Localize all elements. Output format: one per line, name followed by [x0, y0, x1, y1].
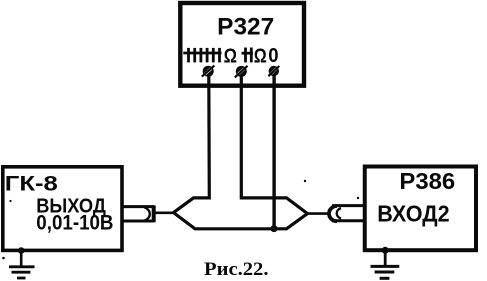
terminal 3 of P327: [268, 66, 279, 76]
wire W3: terminal3 straight down to bottom conductor: [272, 75, 275, 229]
svg-text:Ω: Ω: [224, 46, 237, 68]
dial markings group 1 (111111 ohm): [183, 48, 221, 63]
label P327: [217, 13, 274, 40]
ground (left, under GK-8): [9, 251, 35, 278]
connector XP1 (left coax plug at GK-8 output): [122, 205, 155, 222]
wire: left plug pin to left tip: [155, 212, 175, 215]
label P386: [399, 168, 455, 194]
wire W1: terminal1 down, jog left, to left cable tip: [174, 75, 210, 213]
terminal 2 of P327: [235, 66, 248, 78]
label 0,01-10V: [36, 210, 113, 234]
label GK-8: [5, 171, 58, 195]
connector XP2 (right coax plug at P386 input): [329, 206, 365, 222]
terminal 1 of P327: [202, 66, 215, 77]
label VKHOD2 (input 2): [377, 201, 449, 227]
dial markings group 1 omega: [224, 46, 237, 68]
box U1 P327 (decade resistance box): [180, 3, 304, 86]
svg-text:ГК-8: ГК-8: [5, 171, 58, 195]
svg-text:Рис.22.: Рис.22.: [204, 259, 269, 280]
junction dot where W3 meets bottom conductor: [271, 225, 278, 232]
svg-text:Ω: Ω: [254, 46, 267, 68]
box P386 (millivoltmeter): [365, 167, 476, 251]
wire: bottom cable conductor between the two tips: [174, 213, 308, 229]
svg-text:Р386: Р386: [399, 168, 455, 194]
svg-text:Р327: Р327: [217, 13, 274, 40]
svg-text:ВХОД2: ВХОД2: [377, 201, 449, 227]
ground (right, under P386): [371, 250, 400, 278]
junction dot at left box bottom for ground: [18, 247, 25, 254]
dial markings group 2 omega and zero: [254, 44, 279, 68]
wire W2: terminal2 down, jog right, to right cable tip: [241, 75, 307, 214]
svg-text:0,01-10В: 0,01-10В: [36, 210, 113, 234]
dial markings group 2 (11 ohm 0): [242, 48, 254, 63]
speck noise dots: [2, 180, 359, 260]
box G1 GK-8 (signal generator): [3, 167, 122, 251]
junction dot at right box bottom for ground: [382, 247, 389, 254]
svg-text:0: 0: [268, 44, 278, 67]
wire: right tip to right plug: [307, 212, 328, 215]
caption Ris.22.: [204, 259, 269, 280]
label VYKHOD (output): [36, 195, 106, 217]
